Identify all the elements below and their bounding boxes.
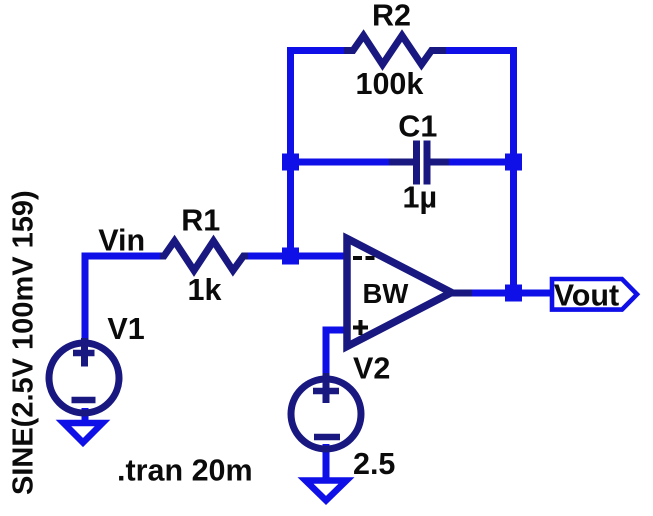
- svg-text:100k: 100k: [356, 67, 424, 101]
- svg-text:V1: V1: [107, 312, 144, 346]
- svg-text:SINE(2.5V 100mV 159): SINE(2.5V 100mV 159): [8, 190, 40, 495]
- svg-text:V2: V2: [353, 352, 390, 386]
- svg-text:Vout: Vout: [554, 279, 620, 313]
- svg-text:R2: R2: [372, 0, 411, 32]
- svg-text:BW: BW: [363, 278, 409, 309]
- svg-text:C1: C1: [398, 109, 437, 143]
- svg-text:1µ: 1µ: [403, 181, 438, 215]
- svg-text:2.5: 2.5: [353, 447, 395, 481]
- svg-text:.tran 20m: .tran 20m: [117, 454, 253, 488]
- svg-text:R1: R1: [181, 204, 220, 238]
- svg-text:Vin: Vin: [98, 224, 145, 258]
- svg-text:1k: 1k: [188, 273, 222, 307]
